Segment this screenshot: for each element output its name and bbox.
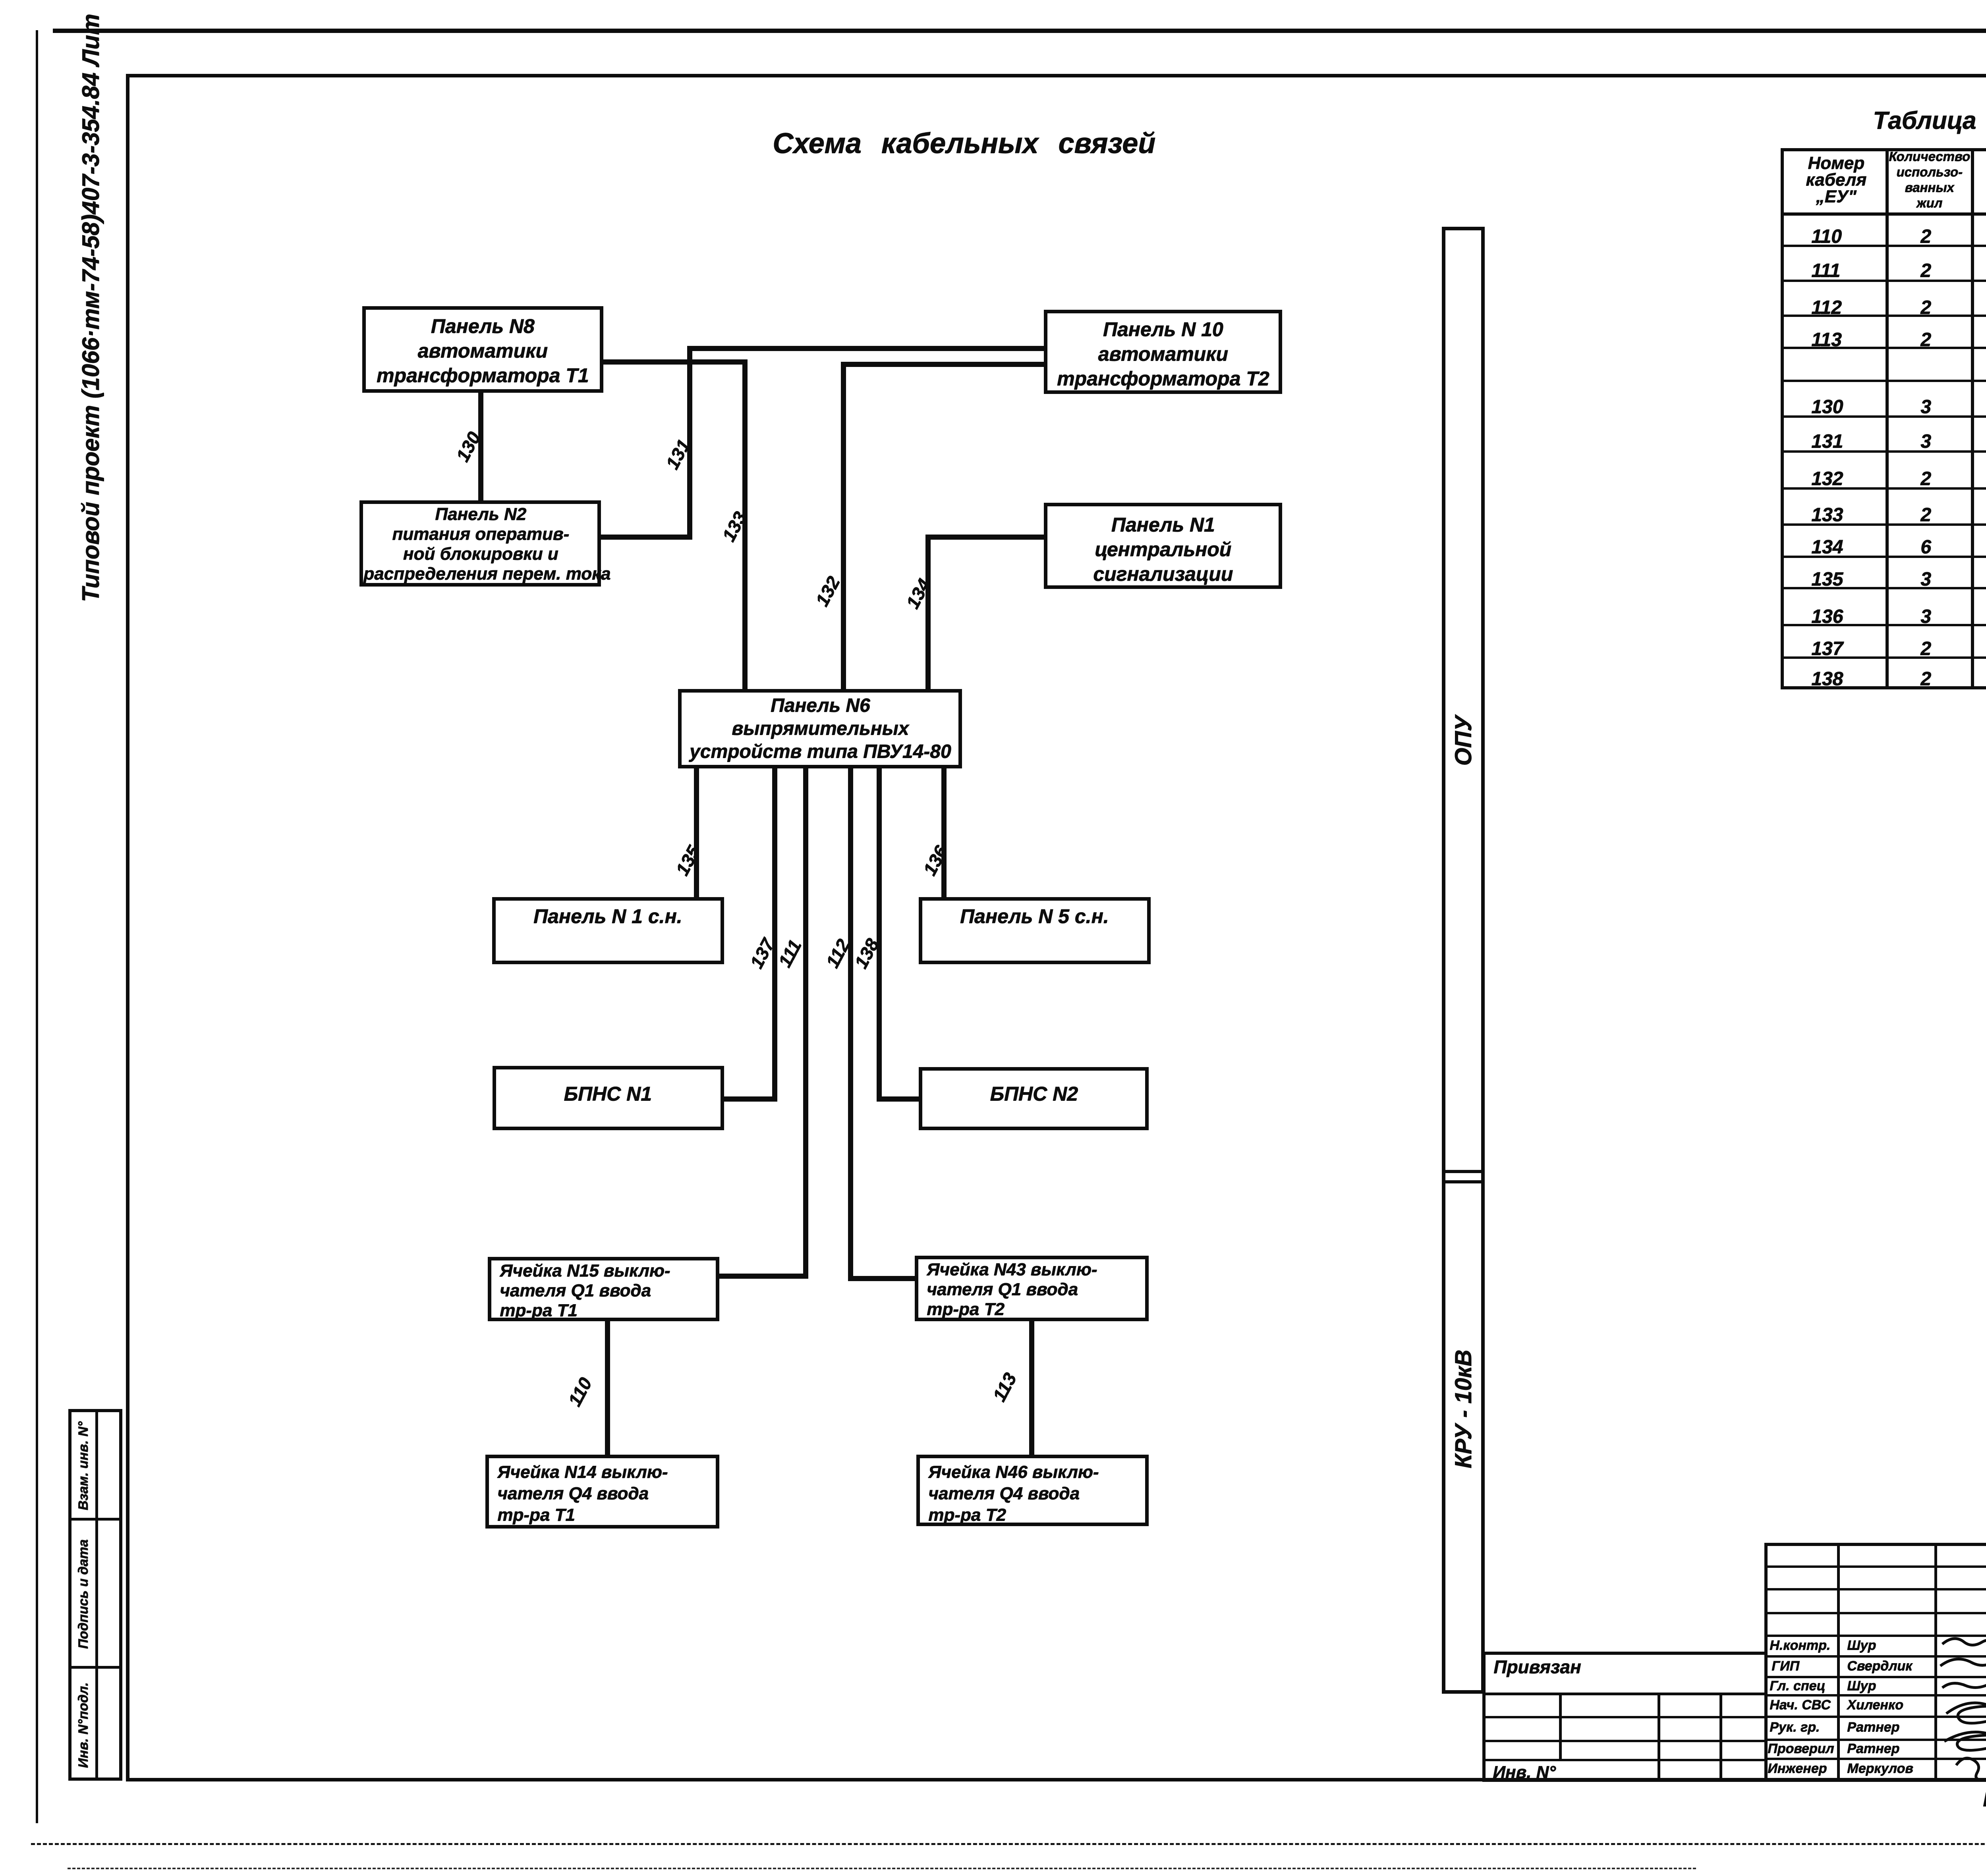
row 131 xyxy=(1811,430,1843,452)
mini-table divider vertical xyxy=(95,1409,98,1781)
wire 138 elbow to BPNS N2 xyxy=(877,1096,919,1102)
cable table bottom border xyxy=(1781,686,1986,689)
extension row line 4 (inv top) xyxy=(1482,1759,1764,1761)
wire 131 top horizontal to N10 xyxy=(687,346,1044,351)
panel N2 label xyxy=(363,504,598,584)
cell N46 label xyxy=(928,1461,1099,1526)
panel N6 rectifier box xyxy=(678,689,962,768)
row 133 xyxy=(1811,504,1843,526)
mini-table label Подпись и дата xyxy=(76,1527,91,1662)
cell N14 label xyxy=(497,1461,668,1526)
panel N5 s.n. label xyxy=(923,905,1146,928)
signature row texts xyxy=(1770,1638,1830,1653)
wire 133 horizontal from N8 xyxy=(603,359,748,365)
cell N15 box xyxy=(488,1257,719,1321)
panel N1 central signaling box xyxy=(1044,503,1282,589)
BPNS N2 box xyxy=(919,1067,1149,1130)
extension column c xyxy=(1719,1693,1722,1781)
cable table row line under 137 xyxy=(1781,656,1986,659)
row 130 xyxy=(1811,396,1843,418)
cell N43 label xyxy=(927,1260,1097,1319)
row 134 xyxy=(1811,536,1843,558)
cell N46 box xyxy=(916,1455,1149,1526)
wire 130 label xyxy=(452,428,485,465)
row 110 xyxy=(1811,226,1842,247)
wire 135 vertical N6->panel N1 s.n. xyxy=(694,768,699,897)
panel N6 label xyxy=(681,694,959,763)
row 113 xyxy=(1811,329,1842,351)
cable table row line under 113 xyxy=(1781,347,1986,349)
cable table row line under 133 xyxy=(1781,523,1986,526)
extension column b xyxy=(1658,1693,1660,1781)
row 132 xyxy=(1811,468,1843,490)
wire 137 vertical N6->BPNS N1 xyxy=(772,768,777,1102)
mini-table divider row1 xyxy=(68,1518,122,1521)
BPNS N2 label xyxy=(923,1082,1145,1105)
left margin rotated inventory text xyxy=(77,35,104,602)
row 135 xyxy=(1811,568,1843,590)
wire 111 elbow to cell N15 xyxy=(719,1274,806,1279)
wire 132 vertical to N6 xyxy=(841,362,846,689)
cable table row line under 112 xyxy=(1781,315,1986,317)
signature named row lines xyxy=(1764,1655,1986,1658)
row 136 xyxy=(1811,606,1843,627)
wire 112 label xyxy=(821,936,854,971)
wire 113 vertical cell N43->cell N46 xyxy=(1029,1321,1034,1455)
cell N15 label xyxy=(500,1261,670,1320)
wire 112 elbow to cell N43 xyxy=(848,1276,915,1281)
wire 113 label xyxy=(988,1369,1021,1405)
wire 111 label xyxy=(774,936,806,971)
title block bottom heavy line xyxy=(1482,1778,1986,1782)
wire 131 label xyxy=(661,436,695,473)
signature squiggles (svg) xyxy=(1934,1628,1986,1779)
mini-table label Инв. N° подл. xyxy=(76,1672,91,1779)
wire 133 label xyxy=(718,508,751,545)
cable table row line under 131 xyxy=(1781,450,1986,453)
header used cores xyxy=(1889,149,1970,210)
wire 134 label xyxy=(902,575,935,612)
signature empty row lines xyxy=(1764,1565,1986,1568)
kopiroval note xyxy=(1983,1788,1986,1811)
wire 136 label xyxy=(919,842,952,879)
panel N2 box xyxy=(359,500,601,587)
cell N14 box xyxy=(485,1455,719,1529)
OPU/KRU divider line 1 xyxy=(1442,1170,1485,1173)
panel N1 s.n. label xyxy=(496,905,719,928)
header cable number xyxy=(1785,155,1887,205)
cable table outer border xyxy=(1781,148,1986,151)
extension row line 3 xyxy=(1482,1740,1764,1742)
cable table header bottom line xyxy=(1781,212,1986,216)
panel N1 central signaling label xyxy=(1051,512,1275,586)
wire 132 horizontal from N10 xyxy=(841,362,1044,367)
cable table row line under 136 xyxy=(1781,624,1986,626)
signature table column fio xyxy=(1837,1543,1840,1780)
cable table row line under 134 xyxy=(1781,556,1986,558)
sheet bottom dashed edge xyxy=(31,1843,1986,1845)
wire 136 vertical N6->panel N5 s.n. xyxy=(941,768,947,897)
cable table row line under 135 xyxy=(1781,587,1986,589)
row 112 xyxy=(1811,297,1842,318)
panel N5 s.n. box xyxy=(919,897,1151,964)
wire 112 vertical N6->cell N43 xyxy=(848,768,853,1281)
wire 110 label xyxy=(564,1374,596,1410)
wire 134 vertical to N6 xyxy=(925,535,931,689)
cable table row line under 132 xyxy=(1781,487,1986,490)
cable table left border xyxy=(1781,148,1784,689)
BPNS N1 box xyxy=(493,1066,724,1130)
cable table column divider 1 xyxy=(1886,148,1889,687)
panel N10 label xyxy=(1051,317,1275,391)
cable table row line under empty row xyxy=(1781,380,1986,382)
KRU-10kV label xyxy=(1450,1350,1477,1469)
panel N8 box xyxy=(362,306,603,393)
wire 132 label xyxy=(811,573,844,610)
wire 138 vertical N6->BPNS N2 xyxy=(877,768,882,1102)
row 138 xyxy=(1811,668,1843,690)
sheet left thin border line xyxy=(36,30,38,1823)
OPU / KRU tall box xyxy=(1442,227,1485,1694)
extension row line 2 xyxy=(1482,1716,1764,1718)
wire 130 vertical N8->N2 xyxy=(478,393,483,500)
wire 133 vertical to N6 xyxy=(742,359,748,689)
panel N8 label xyxy=(369,314,596,388)
wire 131 horizontal from N2 xyxy=(601,535,692,540)
OPU label xyxy=(1450,697,1477,785)
title block left edge of signature table xyxy=(1764,1543,1768,1780)
sheet bottom lower dash marks xyxy=(68,1868,1696,1869)
row 111 xyxy=(1811,260,1840,282)
wire 137 elbow to BPNS N1 xyxy=(724,1096,775,1102)
cable table column divider 2 xyxy=(1971,148,1974,687)
wire 111 vertical N6->cell N15 xyxy=(803,768,808,1279)
left extension left edge xyxy=(1482,1652,1486,1781)
panel N1 s.n. box xyxy=(492,897,724,964)
sheet top heavy border line xyxy=(53,29,1986,33)
privyazan text xyxy=(1493,1656,1581,1677)
wire 135 label xyxy=(671,842,705,879)
mini-table label Взам. инв. N° xyxy=(76,1413,91,1520)
wire 110 vertical cell N15->cell N14 xyxy=(605,1321,610,1455)
cable table row line under 130 xyxy=(1781,415,1986,418)
wire 134 horizontal from N1 central xyxy=(925,535,1044,540)
wire 137 label xyxy=(746,935,779,972)
cable table row line under 110 xyxy=(1781,245,1986,247)
panel N10 box xyxy=(1044,310,1282,394)
cable table title xyxy=(1873,106,1986,135)
privyazan row bottom xyxy=(1482,1693,1764,1695)
cell N43 box xyxy=(915,1256,1149,1321)
OPU/KRU divider line 2 xyxy=(1442,1180,1485,1183)
wire 138 label xyxy=(850,935,883,972)
row 137 xyxy=(1811,638,1843,660)
left bottom mini-table xyxy=(68,1409,122,1781)
wire 131 vertical xyxy=(687,346,692,540)
BPNS N1 label xyxy=(496,1082,719,1105)
signature table column sign xyxy=(1934,1543,1937,1780)
inv number text xyxy=(1493,1762,1556,1782)
left extension top line xyxy=(1482,1652,1764,1655)
extension column a xyxy=(1559,1693,1562,1761)
cable table row line under 111 xyxy=(1781,280,1986,282)
title block outer of right part xyxy=(1764,1543,1986,1546)
main diagram title xyxy=(773,127,1155,160)
mini-table divider row2 xyxy=(68,1666,122,1669)
